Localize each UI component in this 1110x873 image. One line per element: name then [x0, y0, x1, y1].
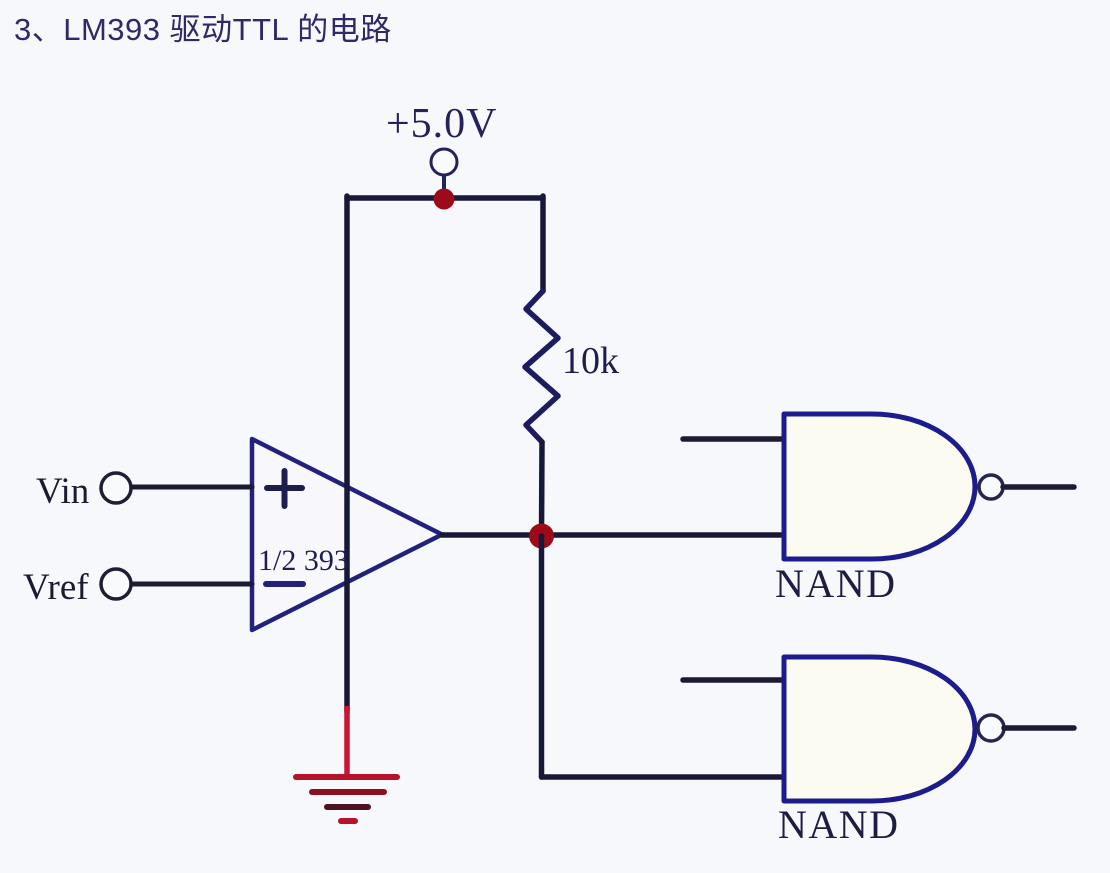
Vref terminal circle: [101, 569, 131, 599]
wire right vertical upper: [540, 196, 546, 291]
ground red wire segment: [344, 706, 350, 776]
wire NAND1 input top: [683, 436, 784, 442]
op-amp U1 1/2 393: [252, 439, 442, 630]
wire NAND2 input top: [683, 677, 784, 683]
wire bottom horizontal to NAND2: [542, 774, 785, 780]
svg-text:+5.0V: +5.0V: [386, 101, 498, 147]
wire top horizontal: [347, 195, 543, 201]
plus input marker: [267, 471, 302, 506]
NAND2 inverter bubble: [978, 715, 1004, 741]
wire Vref to op-amp: [132, 582, 252, 587]
junction top: [434, 189, 455, 210]
supply terminal circle: [431, 149, 457, 175]
wire Vin to op-amp: [132, 485, 252, 490]
NAND gate U3: [784, 657, 975, 801]
Vin terminal circle: [101, 473, 131, 503]
svg-text:10k: 10k: [562, 340, 619, 382]
junction node output: [529, 524, 554, 549]
resistor R1 10k: [525, 291, 558, 442]
svg-text:3、LM393 驱动TTL 的电路: 3、LM393 驱动TTL 的电路: [14, 12, 392, 47]
svg-text:NAND: NAND: [778, 802, 900, 847]
NAND1 inverter bubble: [979, 475, 1003, 499]
svg-text:Vref: Vref: [23, 567, 89, 608]
svg-text:Vin: Vin: [36, 471, 89, 512]
wire junction down: [539, 536, 545, 777]
wire left vertical: [344, 196, 350, 712]
NAND gate U2: [784, 414, 975, 559]
ground: [296, 777, 397, 821]
minus input marker: [266, 581, 303, 587]
svg-text:1/2 393: 1/2 393: [258, 544, 349, 577]
wire NAND1 output: [1003, 484, 1074, 490]
wire supply stub: [442, 175, 446, 194]
wire NAND2 output: [1004, 725, 1074, 731]
wire right vertical lower: [539, 442, 545, 537]
wire op-amp output to NAND1: [442, 532, 784, 538]
svg-text:NAND: NAND: [775, 561, 897, 606]
